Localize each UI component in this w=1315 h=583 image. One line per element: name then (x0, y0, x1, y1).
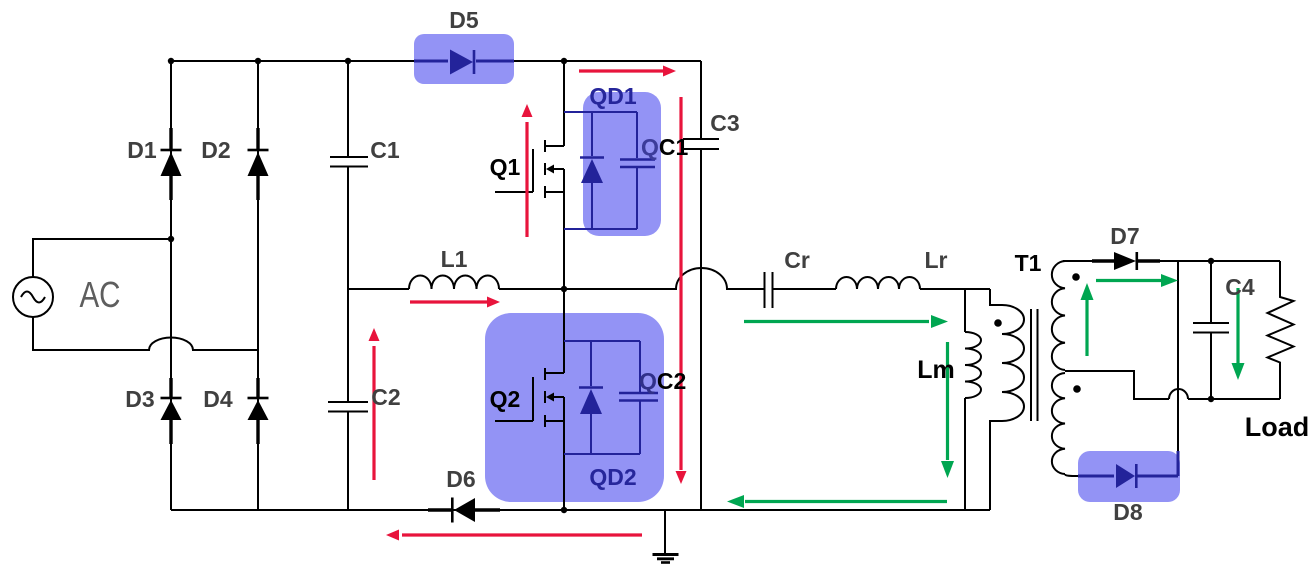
svg-text:D6: D6 (446, 466, 475, 492)
svg-text:QD1: QD1 (589, 83, 637, 109)
svg-text:Q1: Q1 (490, 154, 521, 180)
svg-text:C1: C1 (370, 137, 400, 163)
svg-text:C2: C2 (371, 384, 400, 410)
svg-text:D8: D8 (1113, 499, 1143, 525)
svg-text:Lm: Lm (917, 356, 955, 384)
svg-text:D3: D3 (125, 386, 154, 412)
svg-text:QC2: QC2 (639, 368, 686, 394)
svg-text:D7: D7 (1110, 223, 1139, 249)
svg-text:Lr: Lr (925, 247, 948, 273)
svg-text:C3: C3 (710, 110, 739, 136)
svg-text:QD2: QD2 (589, 464, 636, 490)
svg-text:D2: D2 (201, 137, 230, 163)
svg-text:Load: Load (1245, 412, 1310, 442)
svg-text:D5: D5 (449, 7, 479, 33)
svg-text:QC1: QC1 (641, 134, 689, 160)
svg-text:Q2: Q2 (490, 386, 521, 412)
svg-text:C4: C4 (1225, 274, 1255, 300)
svg-text:D4: D4 (203, 386, 233, 412)
svg-text:Cr: Cr (784, 247, 810, 273)
svg-text:D1: D1 (127, 137, 157, 163)
svg-text:AC: AC (80, 274, 121, 315)
svg-text:T1: T1 (1015, 250, 1042, 276)
svg-text:L1: L1 (441, 246, 468, 272)
